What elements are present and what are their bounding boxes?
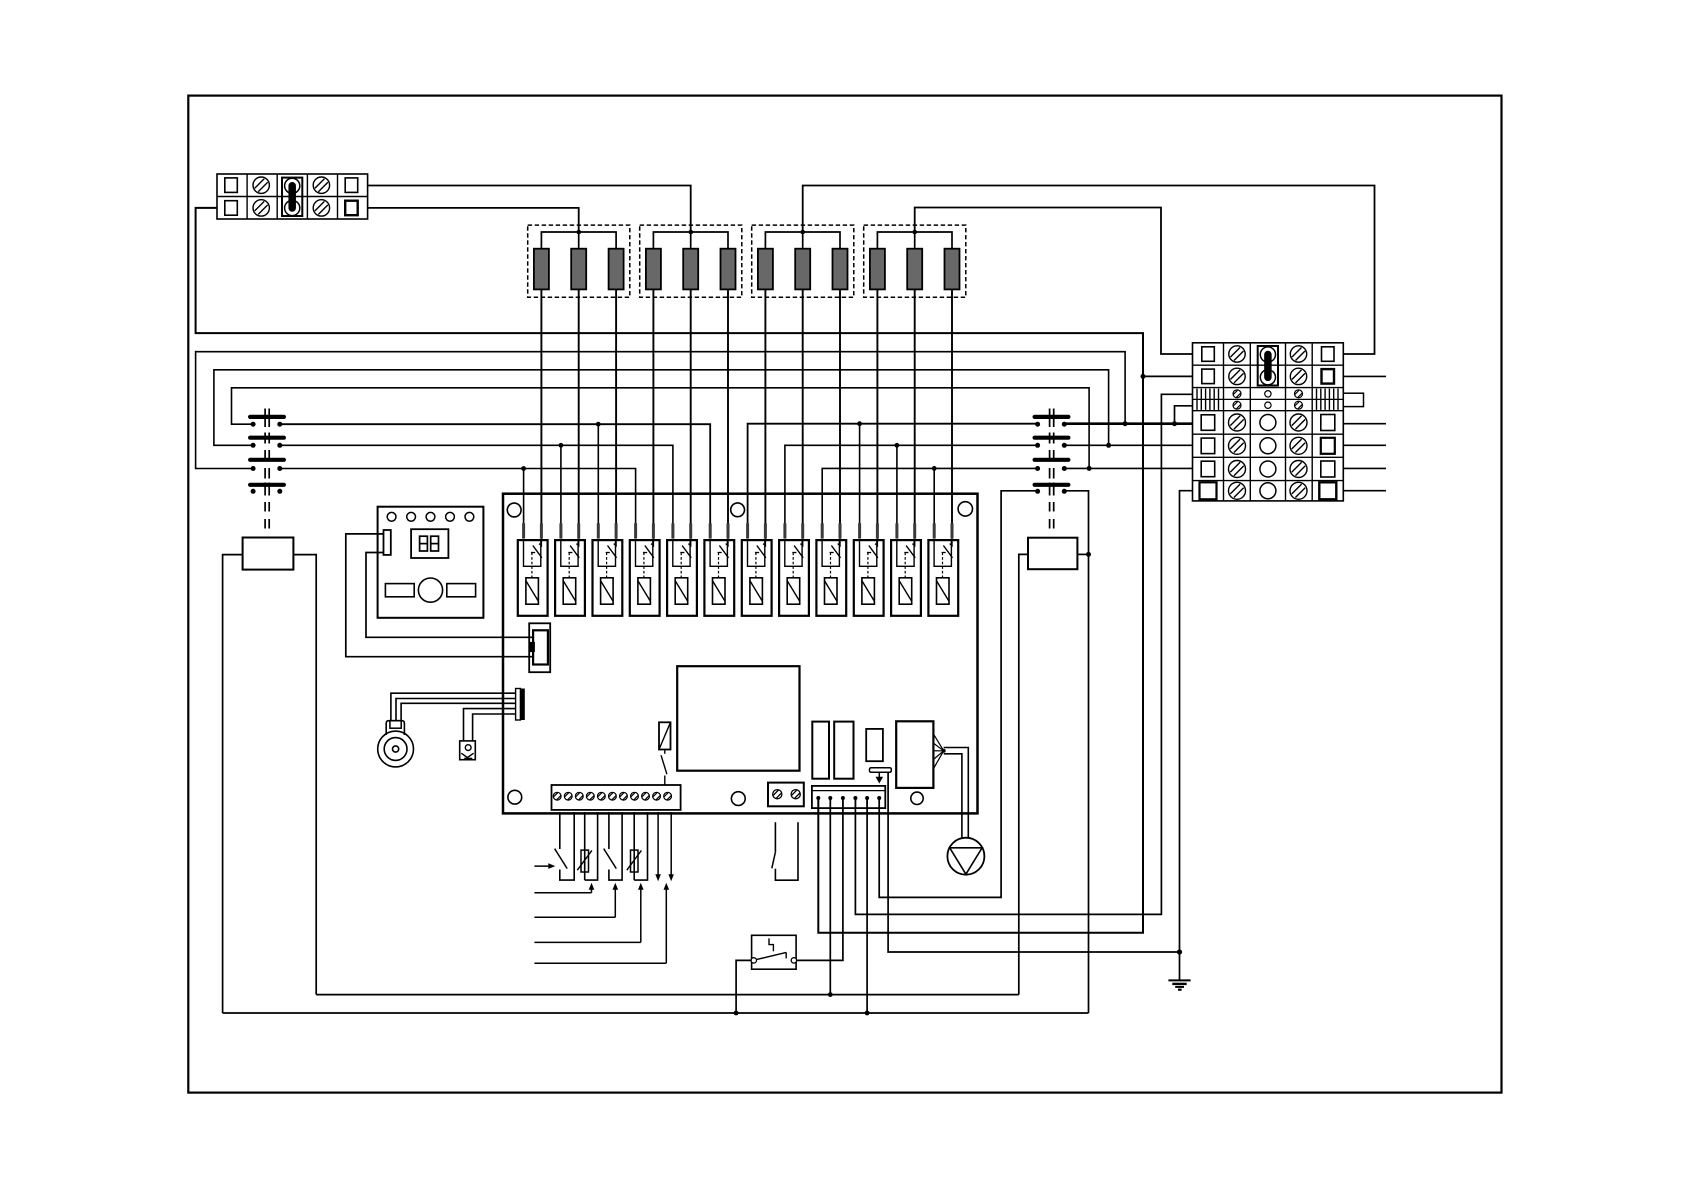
control board A1 outline (503, 494, 978, 814)
wire stub relay K1 (523, 469, 525, 524)
wire relay bus R2 (785, 445, 1038, 523)
terminal block X2 (1193, 343, 1344, 501)
heating element E2.3 (721, 249, 736, 290)
wire heater element 12 to relay K12 (951, 289, 953, 523)
switch S2 (604, 812, 622, 880)
wire heater element 9 to relay K9 (839, 289, 841, 523)
right fuse stack F2 contact dots (1035, 422, 1067, 494)
wire stub relay K2 (560, 445, 562, 523)
wire X2 fuse row lower bridge (1175, 406, 1193, 424)
wire stub relay K12 (933, 468, 935, 523)
switch S1 with actuation arrow (534, 812, 574, 880)
wire branch into X2 row2 (1143, 375, 1193, 377)
node junction X2 row2 (1141, 374, 1146, 379)
heating element E2.2 (683, 249, 698, 290)
connector X5 six pin (812, 786, 885, 808)
wire pin2 down (829, 798, 831, 995)
relay K4 (630, 523, 660, 616)
board mounting holes (507, 502, 972, 806)
component U1 (866, 729, 883, 761)
wire relay bus L1 left (280, 424, 710, 523)
left fuse stack F1 contact dots (251, 422, 283, 494)
heating element E3.2 (795, 249, 810, 290)
relay K6 (704, 523, 734, 616)
wire bus output to X2 row3 (1064, 422, 1192, 425)
jumper link on X1 (282, 178, 302, 216)
plug P1 (243, 538, 294, 570)
wire sensor input 3 (534, 883, 643, 943)
wire phase feed A (X1 row2 - X2 row2 - pin1) (196, 208, 1143, 933)
display edge connector (384, 530, 391, 555)
wire heater element 3 to relay K3 (615, 289, 617, 523)
heating element E1.3 (609, 249, 624, 290)
heater group 2 parallel wiring (653, 232, 728, 249)
wire earth bar to ground (888, 772, 1179, 952)
relay K1 (518, 523, 548, 616)
wire bottom bus neutral (316, 994, 1019, 996)
heating element E3.1 (758, 249, 773, 290)
wire heater element 5 to relay K5 (690, 289, 692, 523)
wire display cable upper (346, 534, 533, 657)
thermistor R2 (627, 812, 648, 880)
X2 fuse rows hatching and small screws (1197, 389, 1338, 410)
heater group dashed enclosures (528, 225, 966, 297)
heater group 4 parallel wiring (877, 232, 952, 249)
wire output arrow 2 (668, 812, 674, 881)
relay K13 (659, 722, 671, 785)
wire heater element 8 to relay K8 (802, 289, 804, 523)
buzzer H1 (378, 721, 414, 767)
transformer T1 (677, 666, 799, 771)
connector X4 two screws (768, 783, 804, 807)
wire X1 row1 to heater group 2 (368, 186, 691, 233)
relay K9 (816, 523, 846, 616)
capacitor C1 (812, 722, 829, 779)
heating element E4.2 (907, 249, 922, 290)
node plug P2 junction (1086, 552, 1091, 557)
wire bus output to X2 row5 (1064, 467, 1192, 469)
wire heater element 11 to relay K11 (914, 289, 916, 523)
heating element E1.1 (534, 249, 549, 290)
X1 terminal squares (225, 178, 358, 215)
relay K5 (667, 523, 697, 616)
right fuse stack F2 fuse-link bars (1035, 409, 1069, 496)
wire harness to sensor (464, 709, 516, 741)
terminal strip X3 (552, 785, 681, 810)
X2 right side lead-out wires (1343, 376, 1386, 490)
wire output arrow 1 (655, 812, 661, 881)
wire pump cable (944, 748, 969, 839)
wire pin5 down (866, 798, 868, 1013)
wire heater element 10 to relay K10 (876, 289, 878, 523)
node junctions on bus outputs (1087, 421, 1177, 471)
right fuse stack F2 plug dashed link (1050, 502, 1054, 531)
wire F2 lower right down (1064, 491, 1088, 1013)
wire phase bus C upper loop (214, 370, 1109, 446)
left fuse stack F1 fuse-link bars (250, 409, 284, 496)
X3 screws (553, 792, 671, 800)
X2 rows 1-2 screw terminals (1229, 346, 1307, 385)
wire heater element 2 to relay K2 (578, 289, 580, 523)
wire F2 lower left to pin6 (879, 491, 1037, 898)
wire thermostat left to bottom bus (736, 960, 752, 1013)
thermistor R1 (577, 812, 597, 880)
thermostat S3 (751, 935, 797, 969)
wire relay bus L2 left (280, 445, 673, 523)
relay K7 (742, 523, 772, 616)
wire X1 row2 to heater group 1 (368, 208, 579, 232)
wire plug P2 right junction (1077, 553, 1088, 555)
wire relay bus R1 (748, 424, 1038, 524)
X2 rows 1-2 squares (1202, 347, 1334, 384)
heater group 3 parallel wiring (765, 232, 840, 249)
relay K10 (854, 523, 884, 616)
wire phase bus D upper loop (232, 388, 1090, 469)
node bottom bus junctions (734, 992, 870, 1015)
heating element E4.3 (945, 249, 960, 290)
relay K11 (891, 523, 921, 616)
node ground junction (1177, 949, 1182, 954)
display buttons (385, 578, 475, 602)
connector J4 with harness fan (896, 721, 946, 788)
wire relay bus R3 (822, 468, 1037, 523)
heating element E1.2 (571, 249, 586, 290)
wire relay bus L3 left (280, 469, 636, 524)
wire heater element 1 to relay K1 (540, 289, 542, 523)
jumper link on X2 (1258, 346, 1278, 386)
relay K12 (928, 523, 958, 616)
wire stub relay K3 (597, 424, 599, 523)
relay K8 (779, 523, 809, 616)
node bus dots right (857, 421, 936, 470)
capacitor C2 (834, 722, 853, 779)
X2 side tab (1343, 393, 1363, 406)
wire bottom bus line (223, 1012, 1089, 1014)
wire bus output to X2 row4 (1064, 444, 1192, 446)
pump M1 (947, 838, 984, 875)
ground (1168, 952, 1190, 990)
wire plug P1 left to bottom bus (223, 555, 243, 1013)
wire display cable lower (366, 553, 533, 638)
wire X2 fuse row upper to pin4 (855, 394, 1192, 914)
wire pin3 to thermostat (796, 798, 843, 960)
wire stub relay K11 (896, 445, 898, 523)
heating element E2.1 (646, 249, 661, 290)
left fuse stack F1 plug dashed link (265, 502, 269, 531)
wire phase bus B upper loop (196, 352, 1126, 469)
node junction heater group 3 (800, 230, 805, 235)
wire heater element 6 to relay K6 (727, 289, 729, 523)
connector J2 on board edge (529, 623, 550, 672)
wire heater element 7 to relay K7 (764, 289, 766, 523)
wire sensor input 2 (534, 883, 618, 918)
X2 rows 3-6 squares and screws (1200, 414, 1337, 499)
wire harness to buzzer (391, 693, 516, 721)
display unit A2 (378, 507, 484, 618)
board earth bar (870, 768, 892, 784)
wire X2 row6 to earth (1180, 491, 1193, 952)
wire plug P2 left down (1019, 554, 1028, 994)
display LEDs (387, 512, 474, 521)
relay K3 (593, 523, 623, 616)
heating element E3.3 (833, 249, 848, 290)
heating element E4.1 (870, 249, 885, 290)
node junction heater group 1 (576, 230, 581, 235)
wire X2 row1 loop to heater group 3 (803, 186, 1375, 355)
node bus dots left (521, 422, 600, 471)
seven segment display (411, 529, 448, 558)
terminal block X1 (217, 174, 368, 219)
relay K2 (555, 523, 585, 616)
X1 screw terminals (253, 177, 330, 216)
heater group 1 parallel wiring (541, 232, 616, 249)
wire plug P1 right to bottom bus (293, 555, 316, 995)
wire sensor input 1 (534, 883, 594, 893)
connector J3 header (516, 689, 525, 721)
node junction heater group 2 (688, 230, 693, 235)
node junction heater group 4 (912, 230, 917, 235)
wire stub relay K10 (859, 424, 861, 524)
switch S4 (772, 822, 798, 880)
wire X2 row1 feed from heater group 4 (915, 208, 1193, 355)
plug P2 (1028, 538, 1077, 570)
sensor B1 (460, 741, 476, 760)
wire heater element 4 to relay K4 (652, 289, 654, 523)
wire sensor input 4 (534, 883, 669, 964)
